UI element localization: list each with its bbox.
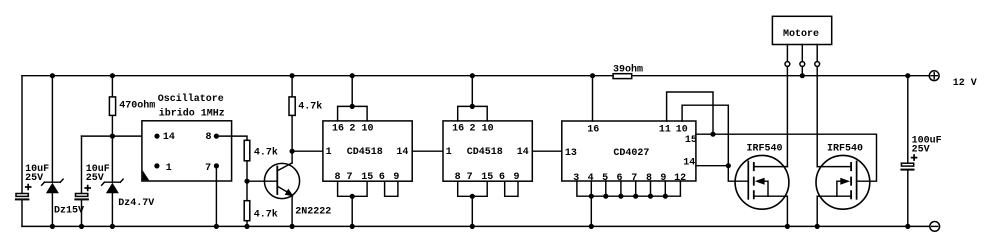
- svg-text:12 V: 12 V: [953, 78, 977, 89]
- svg-text:16: 16: [332, 123, 344, 134]
- zener diode Dz4.7V cathode bar with zener wings: [102, 179, 124, 185]
- transistor Q1 emitter arrowhead: [285, 189, 294, 197]
- terminal 0V circle: [930, 222, 940, 232]
- capacitor C3 top plate: [901, 163, 913, 166]
- resistor R5 39ohm body: [613, 74, 632, 79]
- terminal circle motor right: [815, 62, 820, 67]
- node dot R1 top rail junction: [110, 73, 115, 78]
- wire U4 pin 10 route up and right to left MOSFET gate: [682, 105, 748, 181]
- node dot Q2 source ground junction: [785, 224, 790, 229]
- svg-text:7: 7: [467, 172, 473, 183]
- node pin 14 of U1: [154, 134, 159, 139]
- node dot collector node: [290, 149, 295, 154]
- node dot R3 ground junction: [244, 224, 249, 229]
- svg-text:2: 2: [470, 123, 476, 134]
- IC U2 CD4518 box: [323, 121, 412, 181]
- svg-text:14: 14: [517, 147, 529, 158]
- svg-text:4.7k: 4.7k: [298, 100, 322, 112]
- wire base node to transistor base: [247, 180, 277, 182]
- svg-text:470ohm: 470ohm: [119, 99, 155, 111]
- svg-text:11: 11: [659, 124, 671, 135]
- node dot U3 top bracket junction: [470, 104, 475, 109]
- terminal circle motor left: [785, 62, 790, 67]
- wire U4 pin 11 route up and right: [667, 92, 713, 134]
- svg-text:25V: 25V: [86, 173, 104, 184]
- svg-text:39ohm: 39ohm: [613, 64, 643, 76]
- transistor Q3 drain stub: [817, 166, 851, 168]
- capacitor C2 top plate: [76, 194, 88, 197]
- transistor Q1 2N2222 circle: [264, 163, 299, 198]
- resistor R1 470ohm body: [109, 97, 115, 116]
- terminal 0V minus sign: [932, 225, 938, 227]
- terminal +12V plus sign: [931, 73, 937, 79]
- node dot base node: [244, 179, 249, 184]
- transistor Q2 drain stub: [754, 166, 788, 168]
- svg-text:2N2222: 2N2222: [295, 207, 331, 218]
- terminal circle motor center: [800, 62, 805, 67]
- svg-text:4.7k: 4.7k: [254, 209, 278, 221]
- IC U4 CD4027 box: [562, 121, 696, 181]
- node dot U4 ground rail junction: [589, 224, 594, 229]
- wire U2 top bracket pins 16,2,10: [338, 76, 368, 121]
- transistor Q3 source stub: [817, 196, 851, 226]
- capacitor C3 polarity plus: [911, 154, 918, 161]
- svg-text:1: 1: [326, 147, 332, 158]
- capacitor C3 100uF 25V vertical wire: [907, 76, 909, 227]
- svg-text:CD4518: CD4518: [347, 147, 383, 158]
- transistor Q3 channel segments: [850, 162, 852, 199]
- capacitor C1 top plate: [16, 194, 28, 197]
- node dot U1 pin 7 ground junction: [214, 224, 219, 229]
- transistor Q1 emitter diagonal: [277, 186, 288, 193]
- svg-text:25V: 25V: [25, 173, 43, 184]
- capacitor C2 10uF 25V vertical wire: [81, 136, 83, 226]
- transistor Q2 source stub: [754, 196, 788, 226]
- node dot emitter ground junction: [290, 224, 295, 229]
- wire top +12V rail right segment: [632, 75, 929, 77]
- svg-text:10: 10: [676, 124, 688, 135]
- svg-text:14: 14: [396, 147, 408, 158]
- capacitor C2 bottom plate: [74, 198, 89, 200]
- wire collector node down to Q1: [291, 151, 293, 163]
- svg-text:CD4027: CD4027: [613, 148, 649, 159]
- wire motor center terminal to +12V rail: [801, 67, 803, 76]
- node dot C2 bottom rail junction: [79, 224, 84, 229]
- node pin 7 of U1: [214, 163, 219, 168]
- wire top +12V rail left segment: [22, 75, 613, 77]
- wire motor left terminal down to Q2 drain: [786, 67, 788, 167]
- node dot C3 bottom rail junction: [905, 224, 910, 229]
- capacitor C3 bottom plate: [900, 169, 914, 171]
- resistor R4 body: [289, 97, 295, 116]
- node dot U2 bottom bracket junction: [350, 194, 355, 199]
- wire Q1 emitter to ground: [291, 196, 293, 226]
- node dots U4 bottom bracket junctions: [589, 194, 594, 199]
- capacitor C2 polarity plus: [84, 185, 91, 192]
- node dot U4 pin 16 rail junction: [590, 73, 595, 78]
- resistor R2 4.7k upper divider body: [244, 140, 250, 161]
- svg-text:Motore: Motore: [783, 29, 819, 40]
- svg-text:7: 7: [205, 163, 211, 174]
- capacitor C1 bottom plate: [15, 198, 30, 200]
- transistor Q1 base bar: [276, 166, 278, 195]
- Motore box: [772, 16, 831, 44]
- wire U1 pin 7 to ground rail: [215, 166, 217, 227]
- wire 4.7V node to oscillator pin 14: [82, 135, 158, 137]
- capacitor C1 polarity plus: [25, 184, 32, 191]
- svg-text:Dz15V: Dz15V: [54, 205, 84, 216]
- svg-text:1: 1: [446, 147, 452, 158]
- wire U4 pin 15 route to right MOSFET gate: [696, 134, 877, 181]
- wire U2 bottom bracket pins 6,9: [385, 181, 398, 196]
- node pin 1 of U1: [154, 163, 159, 168]
- zener diode Dz15V triangle: [46, 183, 59, 193]
- svg-text:13: 13: [565, 148, 577, 159]
- svg-text:7: 7: [347, 172, 353, 183]
- svg-text:ibrido 1MHz: ibrido 1MHz: [159, 107, 225, 119]
- zener diode Dz15V wire: [51, 76, 53, 227]
- capacitor C1 10uF 25V vertical wire: [21, 76, 23, 227]
- svg-text:Oscillatore: Oscillatore: [158, 93, 224, 105]
- node dot U3 supply rail junction: [470, 73, 475, 78]
- node dot R4 top rail junction: [290, 73, 295, 78]
- zener diode Dz4.7V triangle: [106, 183, 119, 193]
- svg-text:1: 1: [166, 163, 172, 174]
- svg-text:14: 14: [163, 132, 175, 143]
- svg-text:4.7k: 4.7k: [254, 146, 278, 158]
- node dot U2 supply rail junction: [350, 73, 355, 78]
- svg-text:15: 15: [685, 135, 697, 146]
- transistor Q3 body arrowhead: [840, 178, 850, 185]
- wire collector node to U2 pin 1: [292, 150, 323, 152]
- wire motor terminal leads: [787, 45, 817, 62]
- node dot Dz15V top rail junction: [50, 73, 55, 78]
- transistor Q1 collector diagonal: [277, 163, 292, 171]
- transistor Q2 body connection line: [763, 181, 768, 196]
- wire U1 pin 8 to divider top: [216, 136, 247, 140]
- svg-text:CD4518: CD4518: [467, 147, 503, 158]
- svg-text:14: 14: [683, 158, 695, 169]
- svg-text:25V: 25V: [912, 145, 930, 156]
- wire bottom 0V rail: [22, 225, 930, 227]
- zener diode Dz4.7V wire: [111, 136, 113, 226]
- node dot Dz4.7V / R1 / C2 node: [110, 134, 115, 139]
- resistor R1 470ohm wires: [111, 76, 113, 136]
- wire U2 bottom bracket pins 8,7,15: [338, 181, 368, 226]
- transistor Q3 gate bar: [856, 161, 858, 200]
- wire motor right terminal down to Q3 drain: [816, 67, 818, 167]
- node dot C3 top rail junction: [905, 73, 910, 78]
- transistor Q3 body connection line: [837, 181, 842, 196]
- resistor R3 4.7k lower divider body: [244, 201, 250, 221]
- op-amp U1 hybrid oscillator box: [142, 121, 232, 181]
- IC U3 CD4518 box: [443, 121, 532, 181]
- wire U3 pin 14 to U4 pin 13: [532, 150, 562, 152]
- svg-text:16: 16: [452, 123, 464, 134]
- transistor Q2 channel segments: [753, 162, 755, 199]
- node dot pin11/pin15 junction: [710, 132, 715, 137]
- node dot Dz15V bottom rail junction: [50, 224, 55, 229]
- terminal +12V circle: [929, 71, 939, 81]
- node dot Q3 source ground junction: [815, 224, 820, 229]
- wire U4 pin 16 to supply rail: [592, 76, 594, 121]
- node dot U3 bottom bracket junction: [470, 194, 475, 199]
- wire U3 bottom bracket pins 6,9: [505, 181, 518, 196]
- transistor Q2 body arrowhead: [755, 178, 765, 185]
- wire base node to R3 and R3 to ground: [246, 181, 248, 226]
- wire U4 pin 14 route: [696, 165, 728, 167]
- svg-text:IRF540: IRF540: [827, 144, 863, 155]
- node dot motor center rail junction: [800, 73, 805, 78]
- node dot pin10/pin14 junction: [726, 163, 731, 168]
- resistor R4 4.7k collector pull-up wires: [291, 76, 293, 152]
- transistor Q2 gate bar: [747, 161, 749, 200]
- wire U3 bottom bracket pins 8,7,15: [458, 181, 488, 226]
- svg-text:2: 2: [349, 123, 355, 134]
- wire U4 bracket to ground rail: [590, 196, 592, 226]
- svg-text:8: 8: [206, 132, 212, 143]
- op-amp U1 corner triangle mark: [143, 170, 150, 180]
- wire U3 top bracket pins 16,2,10: [458, 76, 488, 121]
- transistor Q3 IRF540 circle: [816, 155, 870, 209]
- svg-text:Dz4.7V: Dz4.7V: [118, 198, 154, 209]
- zener diode Dz15V cathode bar with zener wings: [42, 179, 64, 185]
- node dot Dz4.7V bottom rail junction: [110, 224, 115, 229]
- svg-text:10: 10: [362, 123, 374, 134]
- wire U2 pin 14 to U3 pin 1: [412, 150, 443, 152]
- wire R2 to base node: [246, 161, 248, 181]
- svg-text:10: 10: [482, 123, 494, 134]
- transistor Q2 IRF540 circle: [735, 155, 789, 209]
- svg-text:IRF540: IRF540: [747, 144, 783, 155]
- wire U4 bottom bracket pins 3..12: [577, 181, 681, 196]
- svg-text:16: 16: [587, 124, 599, 135]
- node dot U2 top bracket junction: [350, 104, 355, 109]
- node dot U3 ground rail junction: [470, 224, 475, 229]
- node pin 8 of U1: [214, 134, 219, 139]
- node dot U2 ground rail junction: [350, 224, 355, 229]
